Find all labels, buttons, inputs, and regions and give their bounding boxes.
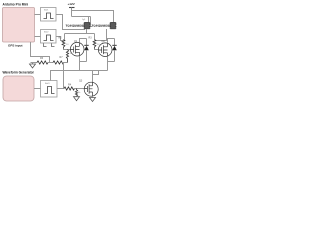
- resistor R7: [53, 61, 64, 64]
- svg-text:GPS input: GPS input: [8, 44, 23, 48]
- wire GPS input net from Arduino bottom: [31, 42, 50, 63]
- resistor R4: [64, 87, 74, 90]
- wire +12V branch to driver U1: [72, 16, 91, 18]
- wire node A stub over buffer U5: [51, 71, 64, 81]
- ground GND1: [30, 63, 36, 69]
- wire GND1 to R6: [31, 62, 38, 64]
- wire Arduino to buffer U4: [35, 36, 41, 38]
- wire R3 to Q2 gate: [95, 49, 99, 50]
- wire buffer U4 output branch to R2: [56, 37, 64, 41]
- resistor R6: [37, 61, 48, 64]
- wire R7 to R5 bottom node: [63, 62, 68, 64]
- wire +12V rail to driver U2: [72, 11, 114, 23]
- buffer U3 box: [41, 8, 57, 22]
- svg-text:Waveform Generator: Waveform Generator: [3, 71, 35, 75]
- wire Q2 drain to diode D2: [108, 39, 115, 44]
- wire buffer U3 output to driver U1 input: [56, 15, 85, 30]
- wire Q1 source join: [80, 56, 87, 71]
- resistor R2: [62, 40, 65, 49]
- wire node A down to gate line: [63, 63, 65, 89]
- driver U1 DIP package: [84, 22, 91, 29]
- wire source rail: [64, 70, 108, 72]
- transistor Q3: [84, 82, 98, 96]
- driver U2 label: [92, 24, 112, 28]
- svg-text:TC4420/MOSF: TC4420/MOSF: [66, 24, 86, 28]
- wire driver U2 input drop: [91, 17, 93, 27]
- resistor R8 pulldown: [75, 89, 77, 97]
- buffer U5 box: [41, 81, 58, 98]
- svg-text:Buf1: Buf1: [44, 10, 49, 12]
- diode D1: [84, 39, 89, 62]
- power +12V bar: [69, 7, 75, 9]
- diode D2: [112, 39, 117, 62]
- pin stubs under buffer U4: [44, 43, 55, 46]
- ground GND2: [74, 97, 80, 101]
- module Waveform Generator block: [3, 76, 34, 101]
- wire driver U2 output to R3: [95, 29, 107, 41]
- wire Q2 source join: [108, 56, 115, 70]
- wire Arduino to buffer U3: [35, 14, 41, 16]
- wire driver U1 output bus: [65, 29, 95, 40]
- resistor R3: [93, 40, 96, 49]
- svg-text:Buf3: Buf3: [45, 83, 50, 85]
- svg-text:Arduino Pro Mini: Arduino Pro Mini: [3, 3, 29, 7]
- ground GND3: [90, 98, 96, 102]
- power +12V label: [68, 2, 75, 6]
- wire Q3 source to ground: [92, 96, 94, 97]
- wire +12V stem: [71, 8, 73, 17]
- resistor R5: [66, 50, 68, 63]
- wire rail to Q3 drain: [93, 71, 99, 83]
- driver U2 DIP package: [110, 22, 117, 29]
- svg-text:Buf2: Buf2: [44, 32, 49, 34]
- wire Q1 drain to diode D1: [80, 39, 87, 43]
- buffer U4 box: [41, 30, 57, 44]
- transistor Q2: [98, 43, 112, 57]
- wire R6 to R7: [48, 62, 53, 64]
- svg-text:TC4420/MOSF: TC4420/MOSF: [92, 24, 112, 28]
- module Arduino Pro Mini block: [3, 8, 35, 43]
- wire R2 to Q1 gate: [64, 49, 71, 50]
- svg-text:+12V: +12V: [68, 2, 75, 6]
- wire driver U1 Vdd drop: [88, 17, 90, 23]
- transistor Q1: [70, 42, 84, 56]
- wire buffer U5 output: [57, 88, 64, 90]
- wire R4 to Q3 gate: [74, 88, 85, 90]
- driver U1 label: [66, 24, 86, 28]
- wire Waveform Generator to buffer U5: [34, 88, 41, 90]
